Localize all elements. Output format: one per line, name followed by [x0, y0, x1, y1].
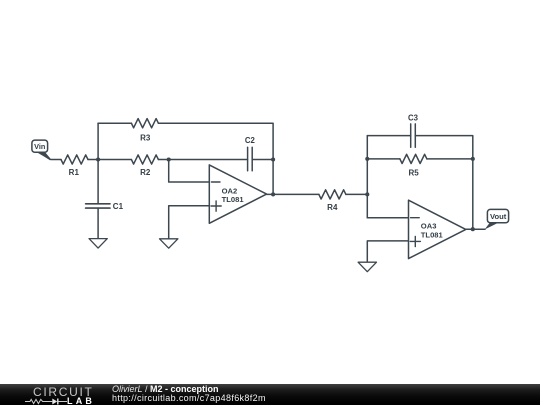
capacitor C1: [86, 202, 124, 211]
svg-text:C3: C3: [408, 113, 419, 122]
wire OA3 output: [466, 228, 485, 230]
wire C3 right lead and down: [415, 136, 473, 159]
op-amp OA3: [409, 200, 466, 258]
CircuitLab logo wordmark: [33, 385, 94, 399]
wire OA3 noninverting input to ground: [367, 241, 408, 262]
svg-text:C1: C1: [113, 202, 124, 211]
svg-text:R3: R3: [140, 133, 151, 142]
CircuitLab logo symbol: [24, 397, 68, 405]
footer line 2: [112, 393, 266, 403]
wire node F to R5: [367, 158, 400, 160]
svg-text:C2: C2: [245, 136, 256, 145]
node G: [471, 157, 475, 161]
svg-text:R1: R1: [69, 168, 80, 177]
wire OA2 output to R4: [267, 193, 319, 195]
wire node B to OA2 inverting input: [169, 160, 210, 183]
svg-text:R2: R2: [140, 168, 151, 177]
wire Vin lead: [51, 159, 61, 161]
wire node G down to node H: [472, 159, 474, 229]
svg-text:R4: R4: [327, 203, 338, 212]
wire node A to R2: [98, 159, 131, 161]
wire node A up: [97, 123, 99, 159]
net flag Vin: [32, 140, 52, 160]
node D: [271, 192, 275, 196]
svg-text:TL081: TL081: [222, 195, 245, 204]
svg-text:R5: R5: [408, 168, 419, 177]
ground: [358, 262, 376, 272]
wire OA2 noninverting input to ground: [169, 206, 210, 239]
net flag Vout: [485, 209, 509, 229]
footer line 1: [112, 384, 219, 394]
capacitor C2: [245, 136, 256, 171]
wire R5 to node G: [427, 158, 473, 160]
svg-text:Vin: Vin: [34, 142, 45, 151]
wire R4 to node E: [346, 193, 367, 195]
wire node A down to C1: [97, 160, 99, 204]
wire node B to C2: [169, 159, 248, 161]
wire R2 to node B: [158, 159, 168, 161]
svg-text:TL081: TL081: [421, 230, 444, 239]
capacitor C3: [408, 113, 419, 147]
wire top to R3: [98, 122, 131, 124]
wire node E up to C3 corner: [366, 136, 368, 195]
resistor R4: [319, 190, 346, 212]
wire R3 to top-right corner and down: [158, 123, 273, 159]
resistor R5: [400, 154, 427, 177]
op-amp OA2: [209, 165, 266, 223]
ground: [160, 239, 178, 248]
wire node C down to node D: [272, 160, 274, 195]
node F: [365, 157, 369, 161]
wire C3 left lead: [367, 135, 410, 137]
node H: [471, 227, 475, 231]
ground: [89, 239, 107, 249]
wire C1 to ground: [97, 208, 99, 239]
resistor R1: [61, 155, 88, 177]
resistor R3: [131, 119, 158, 143]
svg-text:OA2: OA2: [222, 186, 238, 195]
node A: [96, 157, 100, 161]
svg-text:OA3: OA3: [421, 222, 437, 231]
wire R1 to node A: [88, 159, 98, 161]
wire node E to OA3 inverting input: [367, 217, 408, 219]
resistor R2: [131, 155, 158, 177]
svg-text:Vout: Vout: [490, 212, 507, 221]
wire vertical into OA3 inverting input: [366, 194, 368, 217]
wire C2 to node C: [252, 159, 273, 161]
node C: [271, 157, 275, 161]
node B: [167, 157, 171, 161]
node E: [365, 192, 369, 196]
footer bar: [0, 384, 540, 405]
